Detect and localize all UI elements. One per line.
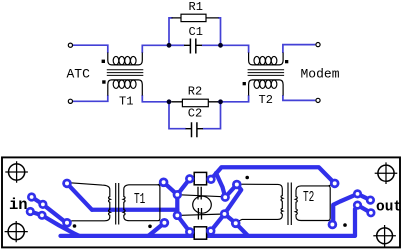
svg-text:T1: T1 — [119, 94, 133, 108]
svg-text:T2: T2 — [303, 189, 314, 206]
terminal Modem bottom — [316, 98, 320, 102]
svg-text:out: out — [376, 200, 402, 216]
wire: C2 branch left vertical — [169, 102, 186, 129]
T2 polarity dot bottom — [243, 82, 246, 85]
pad in C — [26, 207, 35, 216]
trace: pad A to pad B — [32, 197, 43, 204]
trace: bottom square right pad to Q2 — [211, 214, 225, 231]
trace: Q1 to T2 TL pad — [225, 185, 237, 198]
wire: R1 branch right vertical — [218, 18, 221, 45]
trace: bottom bus — [61, 205, 358, 236]
label T1 pcb — [134, 191, 145, 208]
T2 core — [248, 70, 285, 76]
pad Q1 — [221, 193, 230, 202]
T1 top winding — [108, 53, 143, 65]
pad sq left — [185, 174, 194, 183]
silk: R top leads — [190, 178, 211, 181]
traces — [30, 167, 371, 236]
trace: T1 TL pad diagonal — [67, 183, 92, 209]
pad T2 TL — [232, 180, 242, 190]
trace: T1 TR pad to pad — [164, 182, 178, 194]
silk: circle component — [193, 196, 212, 213]
T1 silk: core — [116, 183, 119, 225]
svg-text:in: in — [9, 196, 28, 214]
T1 silk: left winding box — [68, 183, 111, 223]
trace: pad to R-square left pad — [177, 179, 189, 195]
wire: ATC bottom terminal to T1 — [73, 95, 108, 101]
T2 top winding — [249, 53, 284, 65]
pad T2 BL — [231, 219, 241, 229]
board outline — [2, 157, 400, 247]
capacitor C1 leads — [184, 44, 202, 46]
trace: F3 to F4 — [358, 205, 371, 213]
pad T2 TR — [330, 179, 340, 189]
svg-text:ATC: ATC — [67, 66, 91, 81]
T2 silk: right winding box — [295, 184, 333, 223]
trace: pad to bottom square left pad — [177, 215, 189, 231]
pad link bottom — [173, 211, 182, 220]
silk: cap bottom lead line — [177, 214, 224, 215]
mounting hole top-left — [5, 161, 28, 183]
node B junction — [218, 43, 223, 48]
pad T2 BR — [328, 220, 338, 230]
trace: top bus from square right pad to T2 TR pad — [211, 167, 335, 183]
silk dot near T1 BL — [73, 224, 77, 228]
trace: F1 to F2 — [358, 194, 371, 200]
trace: pad D to bottom bus — [42, 215, 79, 236]
T1 polarity dot top — [102, 60, 105, 63]
wire: node B to T2 top left lead — [221, 45, 249, 53]
wire: T2 top right lead to Modem top terminal — [283, 45, 315, 53]
mounting hole bottom-right — [373, 225, 396, 247]
pad in A — [27, 192, 36, 201]
trace: F1 to T2 BR pad vertical — [333, 194, 357, 225]
trace: T2 TL pad S-curve to Q2 — [225, 185, 242, 214]
svg-text:R1: R1 — [189, 0, 203, 14]
resistor R1 leads — [172, 17, 219, 19]
trace: vertical link x=177 — [175, 195, 179, 216]
pad in D — [37, 211, 46, 220]
svg-text:R2: R2 — [188, 84, 202, 98]
mounting hole top-right — [375, 162, 398, 184]
capacitor C2 — [192, 122, 197, 137]
pad bsq left — [185, 227, 194, 236]
pad sq right — [206, 175, 215, 184]
T1 core — [107, 70, 144, 76]
mounting hole bottom-left — [5, 221, 28, 242]
capacitor C2 leads — [186, 128, 204, 130]
node A junction — [167, 43, 172, 48]
pad bsq right — [206, 226, 215, 235]
pad Q2 — [220, 209, 229, 218]
svg-text:C2: C2 — [188, 106, 202, 120]
wire: ATC top terminal to T1 — [73, 45, 108, 53]
silk: top square R — [194, 172, 206, 184]
silk: cap top plates — [198, 187, 201, 200]
resistor R2 — [182, 99, 208, 107]
pad T1 BR — [160, 218, 170, 228]
silk dot near T2 TL — [245, 176, 249, 180]
node D junction — [218, 99, 223, 104]
terminal Modem top — [316, 43, 320, 47]
T2 bottom winding — [249, 80, 284, 96]
silk: R bottom leads — [190, 230, 211, 233]
T1 polarity dot bottom — [102, 80, 105, 83]
terminal ATC top — [68, 43, 72, 47]
silk dot near T2 BR — [343, 223, 347, 227]
svg-text:T1: T1 — [134, 191, 145, 208]
pad T1 TL — [62, 179, 72, 189]
pad F3 — [353, 201, 362, 210]
svg-text:Modem: Modem — [301, 67, 340, 82]
trace: Q2 to T2 BL pad — [225, 214, 236, 223]
wire: node D to T2 bottom left lead — [218, 95, 249, 102]
svg-text:T2: T2 — [259, 93, 273, 107]
wire: R1 branch left vertical — [169, 18, 173, 45]
resistor R2 leads — [172, 101, 219, 103]
trace: T2 BL pad to bottom bus — [236, 223, 248, 236]
terminal ATC bottom — [68, 99, 72, 103]
T2 silk: left winding box — [237, 184, 283, 222]
pad F1 — [353, 189, 362, 198]
trace: middle bus — [92, 208, 177, 212]
trace: T1 BR pad to bottom bus — [149, 223, 165, 236]
pad link top — [173, 190, 182, 199]
transformer T2 — [243, 53, 289, 96]
trace: branch to Q1 — [216, 173, 225, 197]
wire: T2 bottom right lead to Modem bottom terminal — [283, 95, 315, 100]
silk: cap top lead line — [177, 195, 225, 197]
trace: pad C to pad D — [30, 212, 42, 216]
pads — [26, 174, 376, 236]
transformer T1 — [102, 53, 144, 96]
pad T1 TR — [159, 178, 169, 188]
T2 silk: core — [288, 183, 291, 226]
silkscreen — [68, 179, 334, 232]
capacitor C1 — [190, 39, 195, 54]
T1 silk: right winding box — [123, 183, 164, 223]
wire: C1 right lead to node B — [202, 44, 221, 46]
silk dot near T1 BR — [148, 225, 152, 229]
node C junction — [167, 99, 172, 104]
wire: T1 top right lead to node A — [142, 45, 169, 53]
T1 bottom winding — [108, 80, 143, 96]
silk: cap bottom plates — [198, 208, 201, 220]
trace: pad B to T1 BL pad — [43, 204, 66, 222]
wire: node A to C1 left lead — [169, 44, 185, 46]
pad T1 BL — [62, 218, 72, 228]
pad in B — [38, 200, 47, 209]
T2 polarity dot top — [285, 60, 288, 63]
wire: C2 branch right vertical — [203, 102, 221, 129]
label T2 pcb — [303, 189, 314, 206]
wire: T1 bottom right lead to node C — [142, 95, 171, 102]
pad F2 — [366, 196, 375, 205]
silk: bottom square R — [194, 227, 206, 239]
resistor R1 — [181, 14, 206, 21]
pad F4 — [366, 208, 375, 217]
svg-text:C1: C1 — [189, 25, 203, 39]
